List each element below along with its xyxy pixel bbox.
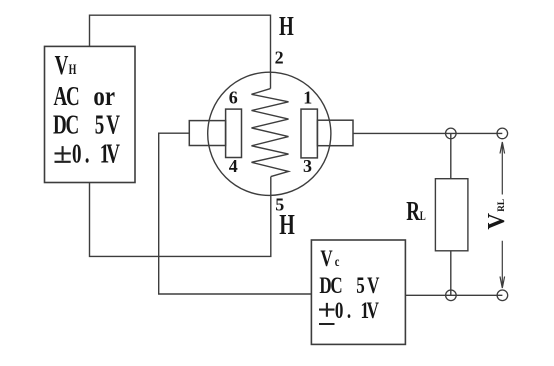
label H bottom (279, 210, 295, 241)
plus-minus sign (heater supply) (55, 146, 71, 162)
voltage source VH box (45, 46, 136, 182)
terminal top right circle (497, 128, 508, 139)
wire left tab to VC box (159, 133, 312, 294)
label AC or (53, 82, 115, 112)
electrode plate right (pins 1-3) (301, 109, 317, 158)
voltage source VC box (311, 240, 405, 344)
label DC 5V (loop supply) (319, 274, 379, 299)
svg-text:R: R (406, 197, 421, 227)
svg-text:L: L (420, 210, 426, 224)
lead tab left (189, 121, 225, 146)
sensor envelope circle (208, 72, 331, 195)
label RL (406, 197, 426, 227)
lead tab right (317, 120, 353, 146)
svg-text:RL: RL (497, 199, 507, 212)
svg-text:V: V (483, 213, 510, 230)
label VRL rotated (483, 199, 510, 230)
svg-text:V: V (320, 247, 333, 272)
electrode plate left (pins 6-4) (226, 109, 242, 157)
wire right tab to output terminal (353, 132, 502, 134)
label VH (55, 51, 77, 81)
wire VH top to heater pin 2 (90, 15, 271, 88)
wire VH bottom to heater pin 5 (90, 177, 271, 257)
wire VC right to node B and output (405, 294, 502, 296)
svg-text:4: 4 (229, 156, 238, 176)
wire RL bottom to node B (450, 251, 452, 295)
terminal bottom right circle (497, 290, 508, 301)
svg-text:V: V (55, 51, 69, 81)
junction node B circle (446, 290, 457, 301)
VRL measure arrow up (500, 142, 505, 195)
plus-minus sign (loop supply) (319, 303, 335, 324)
svg-text:c: c (335, 253, 340, 269)
svg-text:6: 6 (229, 87, 238, 107)
svg-text:3: 3 (303, 156, 312, 176)
svg-text:2: 2 (275, 48, 284, 68)
label VC (320, 247, 339, 272)
svg-text:or: or (93, 82, 115, 112)
label 0.1V tolerance (loop supply) (335, 299, 379, 324)
VRL measure arrow down (500, 241, 505, 288)
resistor RL body (435, 179, 468, 251)
svg-text:1: 1 (303, 87, 312, 107)
wire node A down to RL top (450, 133, 452, 178)
label 0.1V tolerance (heater supply) (72, 139, 120, 169)
label H top (279, 12, 294, 42)
junction node A circle (446, 128, 457, 139)
svg-text:AC: AC (53, 82, 79, 112)
svg-text:H: H (69, 61, 77, 77)
heater coil zigzag (252, 89, 289, 177)
svg-text:H: H (279, 12, 294, 42)
svg-text:H: H (279, 210, 295, 241)
label DC 5V (heater supply) (53, 110, 120, 140)
